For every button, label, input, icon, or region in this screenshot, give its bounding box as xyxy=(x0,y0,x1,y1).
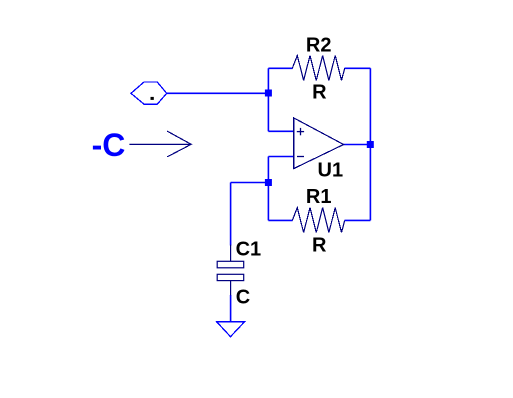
wire left rail lower (- elbow through node B to R1 corner) xyxy=(267,157,269,221)
svg-text:R1: R1 xyxy=(306,186,332,208)
wire R2 left lead xyxy=(268,67,292,69)
svg-text:-C: -C xyxy=(92,127,126,163)
node C junction (output) xyxy=(367,141,374,148)
node A junction xyxy=(265,90,272,97)
ground xyxy=(217,322,245,337)
wire node B to capacitor branch xyxy=(231,182,269,184)
wire right rail xyxy=(369,68,371,220)
svg-text:R2: R2 xyxy=(306,35,332,57)
wire to + input xyxy=(268,130,293,132)
annotation arrow xyxy=(129,131,191,157)
svg-text:R: R xyxy=(312,235,327,257)
node B junction xyxy=(265,179,272,186)
wire to - input xyxy=(268,156,293,158)
wire left rail upper (node A up to R2 corner, down to + input elbow) xyxy=(267,68,269,131)
resistor R2 xyxy=(292,56,344,81)
svg-text:C: C xyxy=(236,287,250,309)
wire capacitor to ground xyxy=(230,295,232,322)
wire hexagon to node A xyxy=(167,92,269,94)
op-amp U1 xyxy=(294,118,344,169)
wire R1 left lead xyxy=(268,219,292,221)
svg-text:U1: U1 xyxy=(318,159,344,181)
wire R2 right lead xyxy=(345,67,371,69)
svg-text:R: R xyxy=(312,82,327,104)
port tag hexagon (input node) xyxy=(131,82,167,104)
wire R1 right lead xyxy=(345,219,371,221)
resistor R1 xyxy=(292,208,344,233)
wire op-amp output to node C xyxy=(344,144,371,146)
capacitor C1 xyxy=(217,245,244,296)
wire capacitor branch vertical upper xyxy=(230,183,232,246)
svg-text:C1: C1 xyxy=(236,239,262,261)
